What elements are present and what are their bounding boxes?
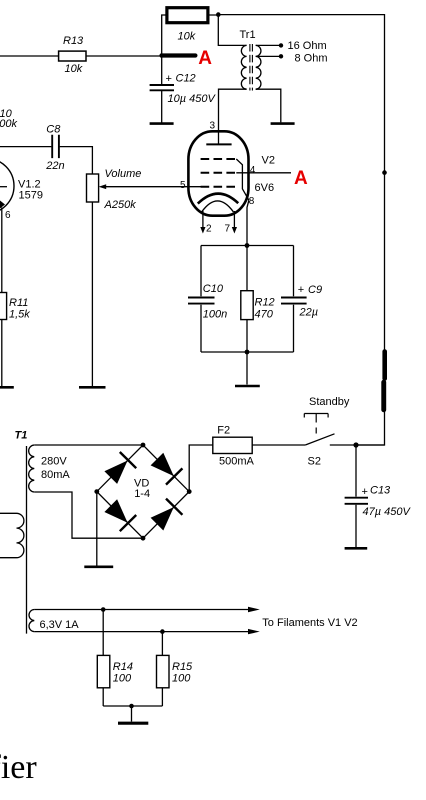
svg-text:A250k: A250k [104,199,137,211]
svg-text:+: + [362,486,368,498]
svg-text:10k: 10k [178,30,196,42]
svg-text:S2: S2 [308,456,321,468]
svg-text:To Filaments V1 V2: To Filaments V1 V2 [262,617,357,629]
svg-text:V2: V2 [262,155,275,167]
svg-text:500mA: 500mA [219,456,255,468]
svg-text:47µ 450V: 47µ 450V [363,506,412,518]
svg-text:Tr1: Tr1 [240,29,256,41]
svg-text:C10: C10 [203,283,224,295]
svg-text:100n: 100n [203,308,227,320]
svg-text:C8: C8 [46,124,61,136]
svg-text:R15: R15 [172,661,193,673]
svg-text:F2: F2 [217,425,230,437]
svg-text:fier: fier [0,749,37,786]
svg-text:1579: 1579 [19,189,43,201]
svg-text:100: 100 [113,672,132,684]
svg-text:10µ 450V: 10µ 450V [168,93,217,105]
svg-text:+: + [166,73,172,85]
svg-text:R14: R14 [113,661,133,673]
svg-text:R12: R12 [255,296,275,308]
svg-text:R11: R11 [9,297,28,309]
svg-text:8: 8 [249,196,255,207]
svg-text:10k: 10k [65,63,83,75]
svg-text:Standby: Standby [309,396,350,408]
svg-text:C12: C12 [176,73,196,85]
svg-text:1-4: 1-4 [134,488,150,500]
svg-text:22n: 22n [45,160,64,172]
svg-text:280V: 280V [41,456,67,468]
svg-text:4: 4 [250,165,256,176]
svg-text:A: A [198,48,212,69]
svg-text:C13: C13 [370,485,391,497]
svg-text:3: 3 [210,120,216,131]
svg-text:7: 7 [225,223,231,234]
svg-text:00k: 00k [0,118,17,130]
svg-text:100: 100 [172,672,191,684]
svg-text:80mA: 80mA [41,469,70,481]
svg-text:R13: R13 [63,35,84,47]
svg-text:6V6: 6V6 [255,182,275,194]
svg-text:22µ: 22µ [299,307,319,319]
svg-text:16 Ohm: 16 Ohm [288,40,327,52]
svg-text:+: + [298,284,304,296]
svg-text:470: 470 [255,308,274,320]
svg-text:8 Ohm: 8 Ohm [295,53,328,65]
svg-text:T1: T1 [15,430,28,442]
svg-text:C9: C9 [308,284,322,296]
svg-text:1,5k: 1,5k [9,309,30,321]
svg-text:5: 5 [180,180,186,191]
svg-text:Volume: Volume [105,168,142,180]
svg-text:A: A [294,168,308,189]
svg-text:6,3V 1A: 6,3V 1A [40,619,80,631]
svg-text:6: 6 [5,210,11,221]
svg-text:2: 2 [206,223,212,234]
